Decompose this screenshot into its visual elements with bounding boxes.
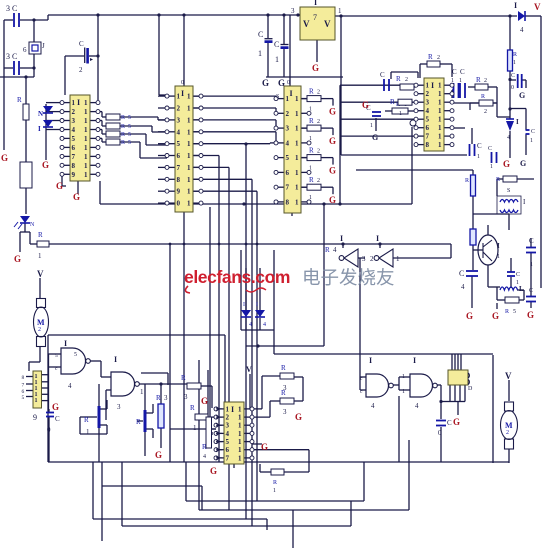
svg-text:3: 3 xyxy=(362,255,366,263)
svg-text:1: 1 xyxy=(438,82,442,90)
svg-text:0: 0 xyxy=(47,426,51,434)
svg-text:1: 1 xyxy=(295,95,299,103)
svg-text:C: C xyxy=(380,71,385,79)
svg-text:2: 2 xyxy=(79,66,83,74)
svg-text:8: 8 xyxy=(22,375,25,381)
svg-text:1: 1 xyxy=(338,7,342,15)
svg-text:7: 7 xyxy=(72,153,76,161)
svg-text:L: L xyxy=(519,285,524,293)
svg-text:1: 1 xyxy=(426,82,430,90)
svg-text:5: 5 xyxy=(74,352,77,358)
svg-text:G: G xyxy=(210,466,217,476)
svg-text:1: 1 xyxy=(226,405,230,413)
svg-text:1: 1 xyxy=(309,166,312,172)
svg-text:G: G xyxy=(362,100,369,110)
svg-text:R: R xyxy=(121,124,125,130)
svg-text:1: 1 xyxy=(530,138,533,144)
svg-text:1: 1 xyxy=(451,78,454,84)
svg-text:5: 5 xyxy=(226,438,230,446)
svg-text:1: 1 xyxy=(438,133,442,141)
svg-text:G: G xyxy=(329,107,336,117)
svg-text:5: 5 xyxy=(286,154,290,162)
svg-text:1: 1 xyxy=(477,154,480,160)
svg-text:1: 1 xyxy=(187,116,191,124)
svg-text:R: R xyxy=(496,177,500,183)
svg-text:2: 2 xyxy=(72,108,76,116)
svg-text:1: 1 xyxy=(238,438,242,446)
svg-text:C: C xyxy=(529,288,533,294)
svg-text:3: 3 xyxy=(164,394,168,402)
svg-text:7: 7 xyxy=(426,133,430,141)
svg-text:R: R xyxy=(309,147,314,155)
svg-text:2: 2 xyxy=(317,178,320,184)
svg-text:G: G xyxy=(42,160,49,170)
svg-text:G: G xyxy=(56,181,63,191)
svg-text:D: D xyxy=(468,386,473,392)
svg-text:G: G xyxy=(14,254,21,264)
svg-text:1: 1 xyxy=(438,124,442,132)
svg-text:G: G xyxy=(261,442,268,452)
svg-text:1: 1 xyxy=(238,446,242,454)
svg-text:M: M xyxy=(505,421,513,430)
svg-text:R: R xyxy=(428,53,433,61)
svg-text:R: R xyxy=(281,364,286,372)
svg-text:3: 3 xyxy=(283,408,287,416)
svg-text:3: 3 xyxy=(72,117,76,125)
svg-text:V: V xyxy=(505,371,512,381)
svg-text:2: 2 xyxy=(484,78,487,84)
svg-text:R: R xyxy=(121,115,125,121)
svg-text:1: 1 xyxy=(459,78,462,84)
svg-text:I: I xyxy=(243,302,245,308)
svg-text:5: 5 xyxy=(22,395,25,401)
svg-text:R: R xyxy=(181,374,186,382)
svg-text:1: 1 xyxy=(273,488,276,494)
svg-text:1: 1 xyxy=(295,139,299,147)
svg-text:7: 7 xyxy=(313,13,317,22)
svg-text:G: G xyxy=(527,310,534,320)
svg-text:7: 7 xyxy=(177,164,181,172)
svg-text:1: 1 xyxy=(84,144,88,152)
svg-text:1: 1 xyxy=(438,141,442,149)
svg-text:1: 1 xyxy=(187,152,191,160)
svg-text:3: 3 xyxy=(117,403,121,411)
svg-text:5: 5 xyxy=(72,135,76,143)
svg-text:I: I xyxy=(231,405,234,414)
svg-text:J: J xyxy=(42,42,45,50)
svg-text:R: R xyxy=(390,98,395,106)
svg-text:C: C xyxy=(459,269,464,278)
svg-text:C: C xyxy=(516,272,520,278)
svg-text:I: I xyxy=(181,89,184,98)
svg-text:1: 1 xyxy=(295,198,299,206)
svg-text:5: 5 xyxy=(513,309,516,315)
svg-text:1: 1 xyxy=(187,188,191,196)
svg-text:R: R xyxy=(202,443,207,451)
svg-text:2: 2 xyxy=(286,110,290,118)
svg-text:I: I xyxy=(256,302,258,308)
svg-text:9: 9 xyxy=(177,188,181,196)
svg-text:I: I xyxy=(497,242,500,250)
svg-text:2: 2 xyxy=(506,430,509,436)
svg-text:M: M xyxy=(37,318,45,327)
svg-text:8: 8 xyxy=(177,176,181,184)
svg-text:0: 0 xyxy=(177,200,181,208)
svg-text:4: 4 xyxy=(72,126,76,134)
svg-text:I: I xyxy=(77,98,80,107)
svg-text:G: G xyxy=(201,396,208,406)
svg-text:C: C xyxy=(274,40,279,49)
svg-text:G: G xyxy=(155,450,162,460)
svg-text:I: I xyxy=(290,89,293,98)
svg-text:G: G xyxy=(329,136,336,146)
svg-text:1: 1 xyxy=(438,99,442,107)
svg-text:4: 4 xyxy=(426,107,430,115)
svg-text:4: 4 xyxy=(177,128,181,136)
svg-text:电子发烧友: 电子发烧友 xyxy=(302,267,395,288)
svg-text:1: 1 xyxy=(309,195,312,201)
svg-text:2: 2 xyxy=(484,109,487,115)
svg-text:I: I xyxy=(431,81,434,90)
svg-text:G: G xyxy=(453,417,460,427)
svg-text:1: 1 xyxy=(497,254,500,260)
svg-text:1: 1 xyxy=(140,388,144,396)
svg-text:8: 8 xyxy=(426,141,430,149)
svg-text:1: 1 xyxy=(238,430,242,438)
svg-text:2: 2 xyxy=(317,119,320,125)
svg-text:4: 4 xyxy=(286,139,290,147)
svg-text:4: 4 xyxy=(333,246,337,254)
svg-text:1: 1 xyxy=(187,164,191,172)
svg-text:R: R xyxy=(481,94,485,100)
svg-text:I: I xyxy=(340,234,343,243)
svg-text:G: G xyxy=(519,91,525,100)
svg-text:G: G xyxy=(466,311,473,321)
svg-text:I: I xyxy=(514,1,517,10)
svg-text:1: 1 xyxy=(35,398,38,404)
svg-text:C: C xyxy=(79,40,84,48)
svg-text:1: 1 xyxy=(193,424,197,432)
svg-text:1: 1 xyxy=(187,140,191,148)
svg-text:R: R xyxy=(309,117,314,125)
svg-text:G: G xyxy=(1,153,8,163)
svg-text:1: 1 xyxy=(438,90,442,98)
svg-text:R: R xyxy=(156,394,161,402)
svg-text:6: 6 xyxy=(226,446,230,454)
svg-text:R: R xyxy=(38,231,43,239)
svg-text:R: R xyxy=(396,75,401,83)
svg-text:1: 1 xyxy=(370,123,373,129)
svg-text:elecfans.com: elecfans.com xyxy=(184,267,290,287)
svg-text:1: 1 xyxy=(187,93,191,101)
svg-text:2: 2 xyxy=(405,77,408,83)
svg-text:5: 5 xyxy=(426,116,430,124)
svg-text:1: 1 xyxy=(238,405,242,413)
svg-text:1: 1 xyxy=(295,110,299,118)
svg-text:1: 1 xyxy=(84,126,88,134)
svg-text:0: 0 xyxy=(287,80,290,86)
svg-text:R: R xyxy=(121,132,125,138)
svg-text:R: R xyxy=(325,246,330,254)
svg-text:G: G xyxy=(73,192,80,202)
svg-text:2: 2 xyxy=(317,149,320,155)
svg-text:5: 5 xyxy=(128,140,131,146)
svg-text:5: 5 xyxy=(55,353,58,359)
svg-text:1: 1 xyxy=(187,128,191,136)
svg-text:1: 1 xyxy=(38,252,42,260)
svg-text:C: C xyxy=(511,73,515,79)
svg-text:R: R xyxy=(190,404,195,412)
svg-text:R: R xyxy=(309,176,314,184)
svg-text:1: 1 xyxy=(238,422,242,430)
svg-text:1: 1 xyxy=(396,255,400,263)
svg-text:3: 3 xyxy=(226,422,230,430)
svg-text:C: C xyxy=(529,237,534,245)
svg-text:3: 3 xyxy=(286,125,290,133)
svg-text:0: 0 xyxy=(511,85,514,91)
svg-text:1: 1 xyxy=(438,116,442,124)
svg-text:G: G xyxy=(372,133,378,142)
svg-text:1: 1 xyxy=(295,169,299,177)
svg-text:1: 1 xyxy=(72,99,76,107)
svg-text:8: 8 xyxy=(72,162,76,170)
svg-text:2: 2 xyxy=(177,105,181,113)
svg-text:1: 1 xyxy=(187,176,191,184)
svg-text:7: 7 xyxy=(226,454,230,462)
svg-text:R: R xyxy=(136,418,141,426)
svg-text:4: 4 xyxy=(249,322,252,328)
svg-text:4: 4 xyxy=(507,135,510,141)
svg-text:1: 1 xyxy=(402,389,405,395)
svg-text:7: 7 xyxy=(22,383,25,389)
svg-text:6: 6 xyxy=(286,169,290,177)
svg-text:V: V xyxy=(303,19,310,29)
svg-text:3 C: 3 C xyxy=(6,52,17,61)
svg-text:1: 1 xyxy=(238,454,242,462)
svg-text:5: 5 xyxy=(128,132,131,138)
svg-text:3 C: 3 C xyxy=(6,4,17,13)
svg-text:1: 1 xyxy=(84,135,88,143)
svg-text:1: 1 xyxy=(275,55,279,64)
svg-text:V: V xyxy=(324,19,331,29)
svg-text:1: 1 xyxy=(238,414,242,422)
svg-text:C: C xyxy=(55,415,60,423)
svg-text:I: I xyxy=(369,356,372,365)
svg-text:I: I xyxy=(38,125,41,133)
svg-text:G: G xyxy=(503,159,510,169)
svg-text:1: 1 xyxy=(402,374,405,380)
svg-text:R: R xyxy=(309,88,314,96)
svg-text:C: C xyxy=(531,129,535,135)
svg-text:V: V xyxy=(246,365,252,374)
svg-text:4: 4 xyxy=(461,283,465,291)
svg-text:9: 9 xyxy=(72,171,76,179)
svg-text:1: 1 xyxy=(84,153,88,161)
svg-text:S: S xyxy=(276,94,279,100)
svg-text:5: 5 xyxy=(177,140,181,148)
svg-text:0: 0 xyxy=(181,80,184,86)
svg-text:G: G xyxy=(295,412,302,422)
svg-text:1: 1 xyxy=(438,107,442,115)
svg-text:6: 6 xyxy=(23,46,27,54)
svg-text:R: R xyxy=(476,76,481,84)
svg-text:G: G xyxy=(52,402,59,412)
svg-text:5: 5 xyxy=(128,115,131,121)
svg-text:7: 7 xyxy=(286,184,290,192)
svg-text:1: 1 xyxy=(516,280,519,286)
svg-text:5: 5 xyxy=(128,124,131,130)
svg-text:3: 3 xyxy=(426,99,430,107)
svg-text:1: 1 xyxy=(84,162,88,170)
svg-text:1: 1 xyxy=(309,107,312,113)
svg-text:G: G xyxy=(492,311,499,321)
svg-text:3: 3 xyxy=(184,393,188,401)
svg-text:0: 0 xyxy=(438,429,442,437)
svg-text:R: R xyxy=(513,52,517,58)
svg-text:R: R xyxy=(281,389,286,397)
svg-text:R: R xyxy=(505,309,509,315)
svg-text:1: 1 xyxy=(399,111,402,117)
svg-text:G: G xyxy=(312,63,319,73)
svg-text:4: 4 xyxy=(68,382,72,390)
svg-text:C: C xyxy=(447,419,452,427)
svg-text:3: 3 xyxy=(291,7,295,15)
svg-text:R: R xyxy=(84,416,89,424)
svg-text:6: 6 xyxy=(72,144,76,152)
svg-text:1: 1 xyxy=(84,117,88,125)
svg-text:1: 1 xyxy=(513,60,516,66)
svg-text:2: 2 xyxy=(426,90,430,98)
svg-text:I: I xyxy=(516,118,519,126)
svg-text:I: I xyxy=(64,339,67,348)
svg-text:4: 4 xyxy=(226,430,230,438)
svg-text:1: 1 xyxy=(490,164,493,170)
svg-text:1: 1 xyxy=(295,154,299,162)
svg-text:1: 1 xyxy=(86,428,90,436)
svg-text:1: 1 xyxy=(530,262,533,268)
svg-text:1: 1 xyxy=(84,171,88,179)
svg-text:1: 1 xyxy=(177,93,181,101)
svg-text:1: 1 xyxy=(258,49,262,58)
svg-text:R: R xyxy=(121,140,125,146)
svg-text:G: G xyxy=(520,159,526,168)
svg-text:G: G xyxy=(329,195,336,205)
svg-text:6: 6 xyxy=(426,124,430,132)
svg-text:R: R xyxy=(17,96,22,104)
svg-text:1: 1 xyxy=(295,125,299,133)
svg-text:N: N xyxy=(38,110,43,118)
svg-text:4: 4 xyxy=(203,454,206,460)
svg-text:6: 6 xyxy=(177,152,181,160)
svg-text:4: 4 xyxy=(263,322,266,328)
svg-text:V: V xyxy=(534,2,541,12)
svg-text:1: 1 xyxy=(309,136,312,142)
svg-text:2: 2 xyxy=(370,255,374,263)
svg-text:I: I xyxy=(376,234,379,243)
svg-text:I: I xyxy=(114,355,117,364)
svg-text:2: 2 xyxy=(437,55,440,61)
svg-text:R: R xyxy=(273,480,277,486)
svg-text:4: 4 xyxy=(520,26,524,34)
svg-text:9: 9 xyxy=(33,413,37,422)
svg-text:8: 8 xyxy=(286,198,290,206)
svg-text:1: 1 xyxy=(295,184,299,192)
svg-text:2: 2 xyxy=(317,90,320,96)
svg-text:1: 1 xyxy=(84,99,88,107)
svg-text:I: I xyxy=(314,0,317,7)
svg-text:C: C xyxy=(477,142,482,150)
svg-text:4: 4 xyxy=(371,402,375,410)
svg-text:I: I xyxy=(413,356,416,365)
svg-text:S: S xyxy=(507,188,510,194)
svg-text:G: G xyxy=(329,166,336,176)
svg-text:N: N xyxy=(30,222,35,228)
svg-text:C: C xyxy=(258,30,263,39)
svg-text:C: C xyxy=(452,68,457,76)
svg-text:3: 3 xyxy=(177,116,181,124)
svg-text:C: C xyxy=(488,146,492,152)
svg-text:4: 4 xyxy=(415,402,419,410)
svg-text:R: R xyxy=(465,178,469,184)
svg-text:1: 1 xyxy=(187,200,191,208)
svg-text:C: C xyxy=(460,68,465,76)
svg-text:2: 2 xyxy=(38,327,41,333)
svg-text:1: 1 xyxy=(84,108,88,116)
svg-text:G: G xyxy=(262,78,269,88)
svg-text:1: 1 xyxy=(187,105,191,113)
svg-text:V: V xyxy=(37,269,44,279)
svg-text:2: 2 xyxy=(226,414,230,422)
